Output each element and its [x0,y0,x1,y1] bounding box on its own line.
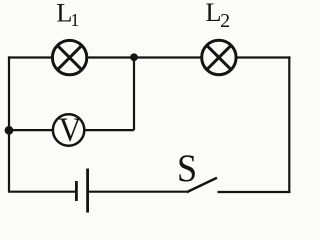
label S [177,148,197,190]
junction node left [5,126,14,135]
label L2 [205,0,230,32]
wire bottom right (switch to corner) [218,191,291,193]
lamp L2 [202,40,236,74]
lamp L1 [52,40,86,74]
junction node top [130,53,138,61]
label L1 [56,0,79,30]
svg-text:S: S [177,148,197,190]
wire middle vertical (junction to voltmeter branch) [133,58,135,131]
svg-text:2: 2 [220,10,230,32]
switch S arm [187,178,217,193]
wire bottom middle (battery to switch) [88,191,187,193]
battery B1 long plate (positive) [86,169,89,213]
wire top horizontal [8,56,291,58]
svg-text:V: V [59,112,82,149]
svg-text:1: 1 [70,10,79,30]
voltmeter V1 [53,112,84,149]
wire left vertical [8,56,10,192]
wire right vertical [288,56,290,192]
battery B1 short plate (negative) [75,181,78,201]
wire bottom left (battery feed) [9,191,75,193]
wire voltmeter branch horizontal [9,129,134,131]
